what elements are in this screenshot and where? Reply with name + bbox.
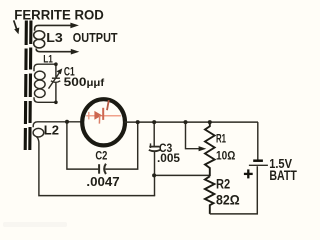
svg-text:.0047: .0047 [86, 174, 119, 189]
svg-text:L1: L1 [43, 54, 53, 66]
svg-text:L2: L2 [44, 124, 59, 138]
svg-text:500μμf: 500μμf [64, 75, 105, 89]
svg-text:R2: R2 [216, 177, 230, 192]
svg-text:10Ω: 10Ω [216, 149, 236, 163]
svg-text:R1: R1 [216, 132, 226, 146]
svg-text:BATT: BATT [269, 168, 297, 183]
svg-text:L3: L3 [46, 31, 63, 45]
svg-text:C2: C2 [95, 148, 107, 162]
svg-text:82Ω: 82Ω [216, 192, 240, 207]
svg-text:FERRITE ROD: FERRITE ROD [14, 7, 104, 22]
svg-text:OUTPUT: OUTPUT [73, 31, 118, 45]
svg-text:.005: .005 [157, 152, 181, 165]
